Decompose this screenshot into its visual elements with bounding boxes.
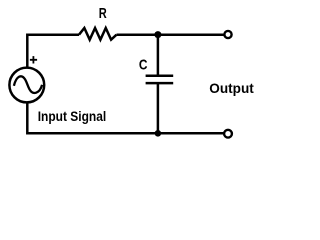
svg-text:Output: Output — [209, 81, 254, 97]
svg-text:R: R — [99, 6, 107, 22]
svg-text:Input Signal: Input Signal — [38, 109, 107, 125]
svg-text:C: C — [139, 57, 148, 74]
